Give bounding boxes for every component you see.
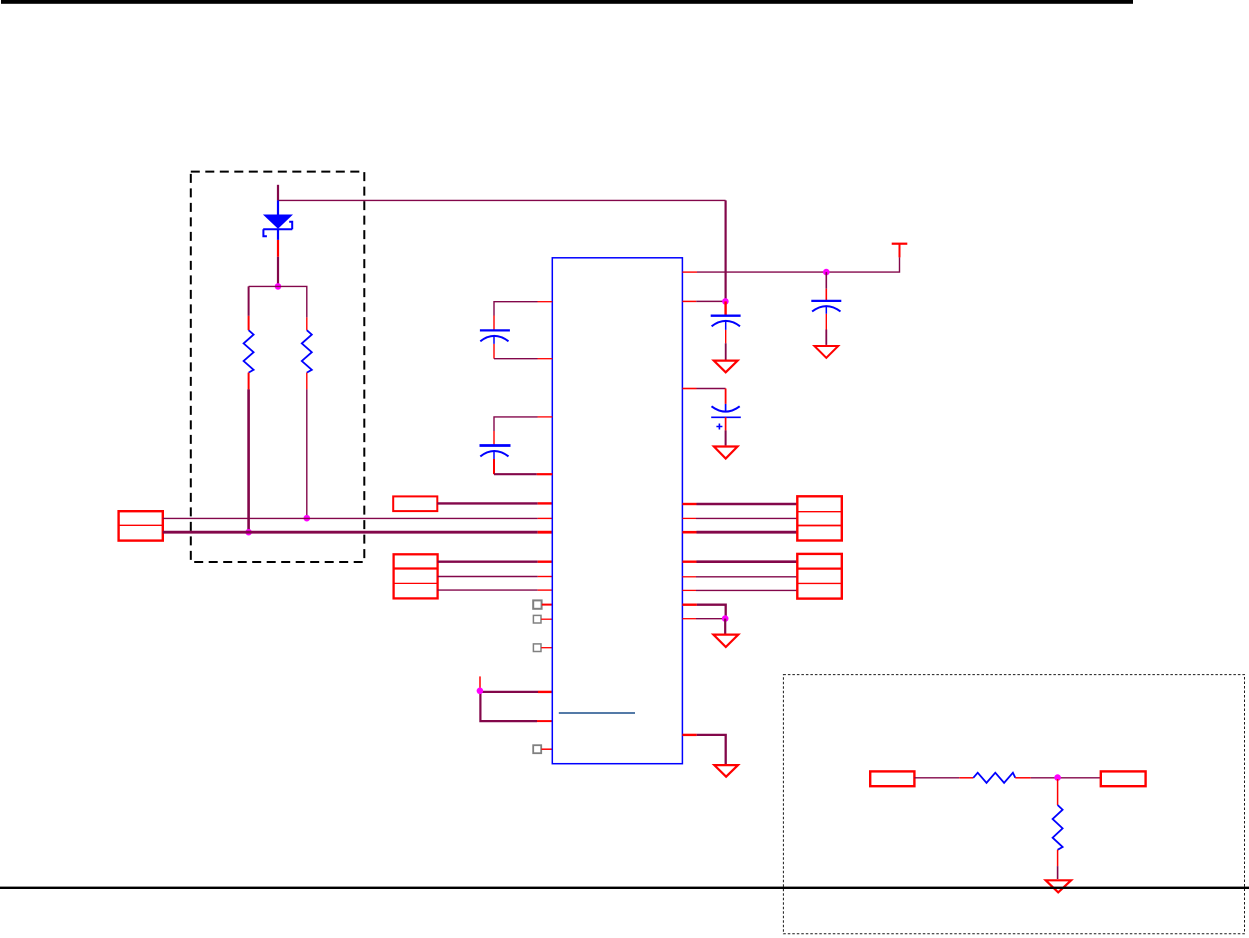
wire xyxy=(438,589,538,591)
node junction xyxy=(1054,774,1061,781)
ground xyxy=(1046,880,1071,892)
pin xyxy=(682,531,696,534)
port P3 xyxy=(394,554,438,598)
port P5 xyxy=(797,554,842,599)
no-connect square xyxy=(533,600,541,608)
node junction xyxy=(275,283,282,290)
IC U1 xyxy=(552,258,682,764)
wire xyxy=(825,272,827,289)
wire loop xyxy=(480,692,538,721)
ground xyxy=(814,346,838,358)
wire xyxy=(697,257,900,272)
wire xyxy=(163,531,538,534)
no-connect square xyxy=(533,615,541,623)
pin xyxy=(682,517,696,519)
sheet top bar xyxy=(1,0,1133,4)
wire xyxy=(494,358,538,360)
pin xyxy=(541,748,552,750)
pin xyxy=(538,576,553,578)
resistor R3 xyxy=(959,773,1030,783)
wire xyxy=(306,389,308,518)
node junction xyxy=(304,515,311,522)
wire vertical drop xyxy=(724,200,726,301)
pin stub up xyxy=(479,676,481,690)
wire xyxy=(725,430,727,445)
ground xyxy=(713,635,738,647)
pin xyxy=(682,388,696,390)
node junction xyxy=(245,529,252,536)
sheet bottom line xyxy=(0,887,1249,889)
capacitor C1 xyxy=(711,301,741,343)
wire xyxy=(494,473,537,475)
port P7 xyxy=(1101,771,1146,786)
pin xyxy=(682,503,696,505)
pin xyxy=(682,271,697,273)
dotted box: output divider section xyxy=(783,675,1244,934)
port P2 xyxy=(393,496,437,511)
wire xyxy=(696,618,725,620)
wire xyxy=(494,302,538,316)
pin xyxy=(538,301,553,303)
wire xyxy=(494,417,538,431)
wire xyxy=(697,531,798,534)
capacitor C5 polarized xyxy=(711,389,741,431)
antenna symbol xyxy=(892,244,908,258)
port P1 xyxy=(119,511,163,540)
port P4 xyxy=(797,496,842,540)
pin xyxy=(682,589,696,591)
wire xyxy=(696,589,797,591)
pin xyxy=(538,691,552,693)
wire xyxy=(696,517,797,519)
net line inside IC xyxy=(559,712,635,714)
ground xyxy=(714,361,738,373)
ground xyxy=(714,765,738,777)
TVS diode D1 xyxy=(263,200,293,256)
wire xyxy=(696,300,723,302)
wire xyxy=(438,576,538,578)
pin xyxy=(537,720,552,722)
pin xyxy=(538,358,553,360)
wire xyxy=(1057,866,1059,879)
wire xyxy=(249,286,307,317)
pin xyxy=(542,604,553,606)
wire xyxy=(696,576,797,578)
pin xyxy=(538,561,553,563)
wire xyxy=(247,389,250,532)
wire xyxy=(697,388,726,390)
pin xyxy=(541,647,552,649)
wire xyxy=(914,777,959,779)
capacitor C2 xyxy=(480,316,510,359)
wire xyxy=(278,199,726,201)
pin xyxy=(682,300,696,302)
wire xyxy=(825,330,827,345)
no-connect square xyxy=(533,644,541,652)
wire xyxy=(724,619,726,634)
node junction xyxy=(722,298,729,305)
wire xyxy=(277,185,279,201)
node junction xyxy=(722,615,729,622)
wire xyxy=(697,560,798,563)
resistor R4 xyxy=(1053,779,1063,866)
wire xyxy=(438,561,538,563)
wire xyxy=(697,735,726,764)
wire xyxy=(437,502,537,504)
pin xyxy=(538,517,553,519)
pin xyxy=(538,502,553,504)
node junction xyxy=(823,269,830,276)
ground xyxy=(714,447,738,459)
wire xyxy=(697,503,798,506)
pin xyxy=(682,576,696,578)
wire xyxy=(277,257,279,287)
pin xyxy=(538,531,553,534)
capacitor C3 xyxy=(480,431,511,474)
wire xyxy=(725,343,727,359)
wire xyxy=(1031,777,1101,779)
wire xyxy=(248,286,250,316)
pin xyxy=(682,604,697,606)
port P6 xyxy=(870,771,914,786)
wire xyxy=(697,605,726,619)
resistor R2 xyxy=(302,317,312,389)
pin xyxy=(682,561,696,563)
pin xyxy=(682,618,696,620)
dashed box: antenna input section xyxy=(191,172,364,562)
capacitor C4 xyxy=(811,289,841,330)
pin xyxy=(538,416,553,418)
pin xyxy=(537,473,553,475)
pin xyxy=(541,618,552,620)
wire xyxy=(163,517,538,519)
pin xyxy=(682,734,696,736)
node junction xyxy=(477,688,484,695)
no-connect square xyxy=(533,745,541,753)
pin xyxy=(538,589,553,591)
resistor R1 xyxy=(244,316,254,390)
